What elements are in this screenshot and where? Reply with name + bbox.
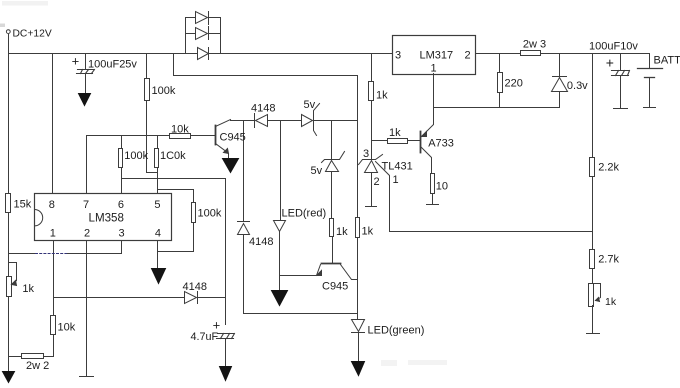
wire output line to 220: [499, 54, 501, 73]
capacitor C2 4.7uF plates: [217, 334, 235, 339]
wire branch rail down at x173: [173, 54, 175, 76]
smudge artifacts top left: [2, 1, 48, 6]
svg-text:4148: 4148: [249, 236, 273, 248]
svg-text:1: 1: [393, 174, 399, 186]
svg-text:BATT: BATT: [654, 55, 680, 67]
svg-text:2w 2: 2w 2: [26, 360, 49, 372]
wire collector line y120: [231, 120, 255, 122]
ground under LED red: [272, 291, 288, 306]
wire down to vertical 4148 chain: [243, 121, 245, 222]
svg-text:2: 2: [84, 228, 90, 240]
wire down to LED red: [280, 121, 282, 221]
svg-text:100k: 100k: [124, 150, 148, 162]
wire 2.7k to pot 1k: [592, 269, 594, 284]
wire 10k to bottom line: [53, 335, 55, 357]
node DC+12V input terminal: [6, 30, 10, 34]
zener 5v (vertical) cathode bar with ticks: [322, 152, 345, 163]
transistor Q2 A733 emitter (to LM317 pin1 node): [422, 108, 434, 137]
diode 4148 (vertical) symbol: [238, 224, 250, 235]
svg-text:6: 6: [118, 199, 124, 211]
svg-text:2w 3: 2w 3: [523, 39, 546, 51]
wire 100k bottom to pin5: [157, 168, 159, 173]
terminal bar under TL431: [366, 206, 377, 208]
wire diode to 5v zener: [268, 120, 302, 122]
wire 100k down to pin5 jog: [147, 101, 158, 173]
wire LED green to ground: [358, 333, 360, 362]
wire LED red to ground: [279, 232, 281, 291]
wire pin1 node to 4148 line: [54, 297, 185, 299]
wire pot to terminal bar: [592, 306, 594, 334]
wire LM358 pin7 up to 10k line: [86, 136, 88, 194]
resistor 100k (pin5 to pin4) body: [192, 203, 196, 223]
svg-text:C945: C945: [220, 132, 246, 144]
wire 1k to A733 base: [408, 140, 421, 142]
svg-text:220: 220: [505, 78, 523, 90]
svg-text:100uF25v: 100uF25v: [88, 59, 137, 71]
svg-text:1: 1: [50, 228, 56, 240]
svg-text:1k: 1k: [376, 90, 388, 102]
potentiometer 1k (left) wiper bracket: [9, 263, 17, 285]
wire C3 to terminal bar: [620, 76, 622, 109]
zener 5v (horizontal) symbol: [302, 115, 313, 127]
svg-text:A733: A733: [428, 138, 454, 150]
svg-text:LED(red): LED(red): [282, 208, 327, 220]
svg-text:+: +: [72, 53, 80, 68]
resistor 2.2k chain vertical wire: [592, 54, 594, 158]
wire right mid column x357: [357, 76, 359, 320]
svg-text:4: 4: [155, 228, 161, 240]
wire rail to 1k: [371, 54, 373, 82]
svg-text:C945: C945: [322, 281, 348, 293]
diode 4148 (bottom horizontal) symbol: [185, 292, 197, 304]
wire zener to mid column: [314, 120, 358, 122]
wire TL431 node to 1k: [372, 140, 388, 142]
svg-text:10k: 10k: [171, 124, 189, 136]
svg-text:+: +: [606, 55, 614, 71]
svg-text:1k: 1k: [389, 127, 401, 139]
transistor Q1 C945 (top) base bar: [215, 126, 217, 145]
resistor 2w2 body: [22, 354, 44, 359]
transistor Q2 A733 base bar: [420, 132, 422, 153]
terminal bar under C3: [614, 108, 628, 110]
resistor 10k (to C945 base) body: [170, 134, 191, 139]
wire bottom link line: [244, 313, 358, 315]
resistor 2w3 body inline on output: [521, 51, 541, 56]
ground bottom left: [3, 372, 15, 383]
svg-text:2: 2: [374, 176, 380, 188]
capacitor C1 100uF25v positive lead: [85, 54, 87, 70]
svg-text:5v: 5v: [304, 99, 316, 111]
diode D1 (top of stack): [186, 17, 196, 19]
svg-text:8: 8: [49, 199, 55, 211]
svg-text:4.7uF: 4.7uF: [191, 331, 219, 343]
wire emitter to ground: [228, 154, 230, 159]
wire C1 to ground: [85, 75, 87, 94]
resistor 10k (pin1) body: [51, 316, 56, 335]
wire 1k down to TL431 cathode: [371, 102, 373, 160]
wire emitter to LED red column: [281, 275, 317, 277]
svg-text:4148: 4148: [183, 281, 207, 293]
wire branch rail to LM358 pin8: [52, 54, 54, 194]
resistor 1k (x357) body: [356, 218, 360, 238]
wire LM317 pin2 output line: [476, 53, 650, 55]
resistor 15k body: [6, 194, 11, 213]
wire zener to 1k: [331, 172, 333, 219]
wire pin2 down to terminal bar: [86, 241, 88, 377]
diode 0.3v symbol: [553, 76, 567, 78]
zener 5v (vertical) triangle: [326, 161, 339, 172]
svg-text:100k: 100k: [198, 208, 222, 220]
terminal bar under right pot: [587, 333, 600, 335]
wire branch line to middle column: [174, 75, 358, 77]
svg-text:TL431: TL431: [382, 161, 413, 173]
svg-text:1k: 1k: [336, 226, 348, 238]
diode 0.3v top lead: [559, 54, 561, 77]
wire LM317 pin1 down and right to 220/0.3v bottoms: [434, 74, 560, 108]
wire mid column top segment: [331, 121, 333, 160]
svg-text:1k: 1k: [605, 296, 617, 308]
resistor 10 body: [431, 174, 435, 194]
LED(red) symbol: [274, 221, 286, 232]
IC U1 LM358 box: [35, 194, 172, 241]
wire top +12V rail: [9, 53, 393, 55]
wire pin3 line dashed blue part: [36, 253, 67, 255]
wire pin4 to ground: [157, 241, 159, 269]
wire pin5 vertical: [157, 173, 159, 194]
transistor Q1 C945 collector: [216, 120, 231, 127]
wire pin6 node to 4.7uF column: [122, 179, 226, 325]
svg-text:1k: 1k: [362, 226, 374, 238]
svg-text:5v: 5v: [311, 165, 323, 177]
svg-text:1: 1: [431, 63, 437, 75]
wire battery to terminal bar: [649, 78, 651, 108]
wire 0.3v to pin1 line: [559, 92, 561, 108]
IC U1 notch: [35, 210, 43, 226]
LED(green) symbol: [352, 320, 365, 332]
svg-text:DC+12V: DC+12V: [13, 29, 52, 40]
ground under C1: [79, 94, 91, 106]
diode D2 (middle of stack): [186, 33, 196, 35]
terminal bar under pin2: [80, 376, 94, 378]
svg-text:LM317: LM317: [420, 50, 454, 62]
battery BATT top lead: [649, 54, 651, 69]
IC U2 LM317 box: [393, 36, 476, 75]
svg-text:0.3v: 0.3v: [567, 80, 588, 92]
svg-text:1C0k: 1C0k: [160, 150, 186, 162]
svg-text:10: 10: [436, 181, 448, 193]
wire 4148 to bottom line: [243, 235, 245, 314]
wire TL431 ref to divider junction: [376, 162, 593, 232]
wire left main vertical from terminal to bottom ground: [8, 35, 10, 372]
svg-text:2.7k: 2.7k: [598, 254, 619, 266]
terminal bar under 10: [427, 204, 439, 206]
transistor Q2 A733 collector: [421, 147, 432, 174]
svg-text:15k: 15k: [14, 199, 32, 211]
wire diode stack right bus: [220, 18, 222, 54]
resistor 220 body: [498, 73, 503, 93]
wire pin3 line to pot (solid part): [9, 253, 122, 255]
svg-text:10k: 10k: [58, 322, 76, 334]
potentiometer 1k (right) body: [589, 284, 594, 307]
wire 2.2k to 2.7k: [592, 177, 594, 250]
resistor 1k (zener chain) body: [330, 219, 334, 237]
wire 100k top to 10k line: [157, 136, 159, 149]
svg-text:3: 3: [395, 50, 401, 62]
resistor 100k (rail, left) body: [145, 79, 150, 101]
transistor Q3 C945 (bottom) base bar: [322, 263, 341, 265]
smudge artifacts bottom middle: [381, 360, 397, 366]
wire 10k line (pin7 to C945 base): [87, 135, 170, 137]
svg-text:LM358: LM358: [89, 212, 124, 225]
wire 10k to C945 base: [191, 135, 216, 137]
potentiometer 1k (left) body: [7, 277, 12, 297]
potentiometer 1k (right) wiper bracket: [593, 284, 601, 301]
TL431 U3 cathode bar with ticks: [359, 155, 383, 165]
resistor 100k (mid left) body: [119, 149, 123, 168]
ground under pin4: [152, 269, 166, 284]
svg-text:5: 5: [154, 199, 160, 211]
resistor 2.2k body: [590, 158, 595, 177]
capacitor C1 100uF25v plates: [77, 70, 95, 74]
svg-text:2: 2: [465, 50, 471, 62]
wire pin5 node right to 100k: [158, 190, 194, 203]
resistor 1k (rail to TL431) body: [369, 82, 374, 101]
transistor Q3 emitter: [317, 265, 321, 276]
wire 220 to pin1 line: [499, 93, 501, 108]
TL431 U3 triangle: [365, 161, 378, 173]
resistor 2.7k body: [590, 250, 595, 269]
wire bottom line with 2w2: [9, 356, 54, 358]
resistor 100k (mid right) body: [155, 149, 159, 168]
wire 100k down to pin4 line: [158, 223, 194, 252]
wire 4.7uF to ground: [225, 340, 227, 367]
wire rail to 100k: [146, 54, 148, 79]
transistor Q3 collector: [341, 265, 358, 280]
diode D3 (on rail): [198, 48, 209, 60]
svg-text:1k: 1k: [22, 283, 34, 295]
svg-text:100uF10v: 100uF10v: [589, 41, 638, 53]
wire TL431 anode to terminal bar: [371, 173, 373, 207]
svg-text:3: 3: [119, 228, 125, 240]
svg-text:2.2k: 2.2k: [598, 162, 619, 174]
svg-text:3: 3: [363, 148, 369, 160]
wire pin3 down: [121, 241, 123, 254]
transistor Q1 C945 emitter: [216, 144, 228, 153]
diode 4148 (upper) symbol cathode-left: [254, 114, 256, 128]
svg-text:7: 7: [83, 199, 89, 211]
ground under 4.7uF: [220, 367, 232, 381]
wire 1k to C945 base: [332, 238, 334, 264]
wire 4148 to 4.7uF column: [198, 297, 226, 299]
capacitor C3 plates: [612, 71, 630, 76]
svg-text:100k: 100k: [152, 85, 176, 97]
resistor 1k (to A733 base) body: [388, 139, 408, 144]
ground under C945 emitter: [223, 159, 239, 173]
wire 100k top to 10k line: [121, 136, 123, 149]
battery BATT long plate: [638, 68, 663, 70]
wire pin1 down: [53, 241, 55, 316]
svg-text:4148: 4148: [251, 103, 275, 115]
capacitor C3 100uF10v lead: [620, 54, 622, 71]
battery BATT short plate: [645, 77, 655, 79]
wire 100k bottom to LM358 pin6: [121, 168, 123, 194]
svg-text:LED(green): LED(green): [368, 325, 425, 337]
wire 10 to terminal bar: [432, 194, 434, 205]
svg-text:+: +: [213, 318, 221, 333]
terminal bar under battery: [644, 107, 656, 109]
ground under LED green: [352, 362, 365, 376]
wire diode stack left bus: [185, 18, 187, 54]
